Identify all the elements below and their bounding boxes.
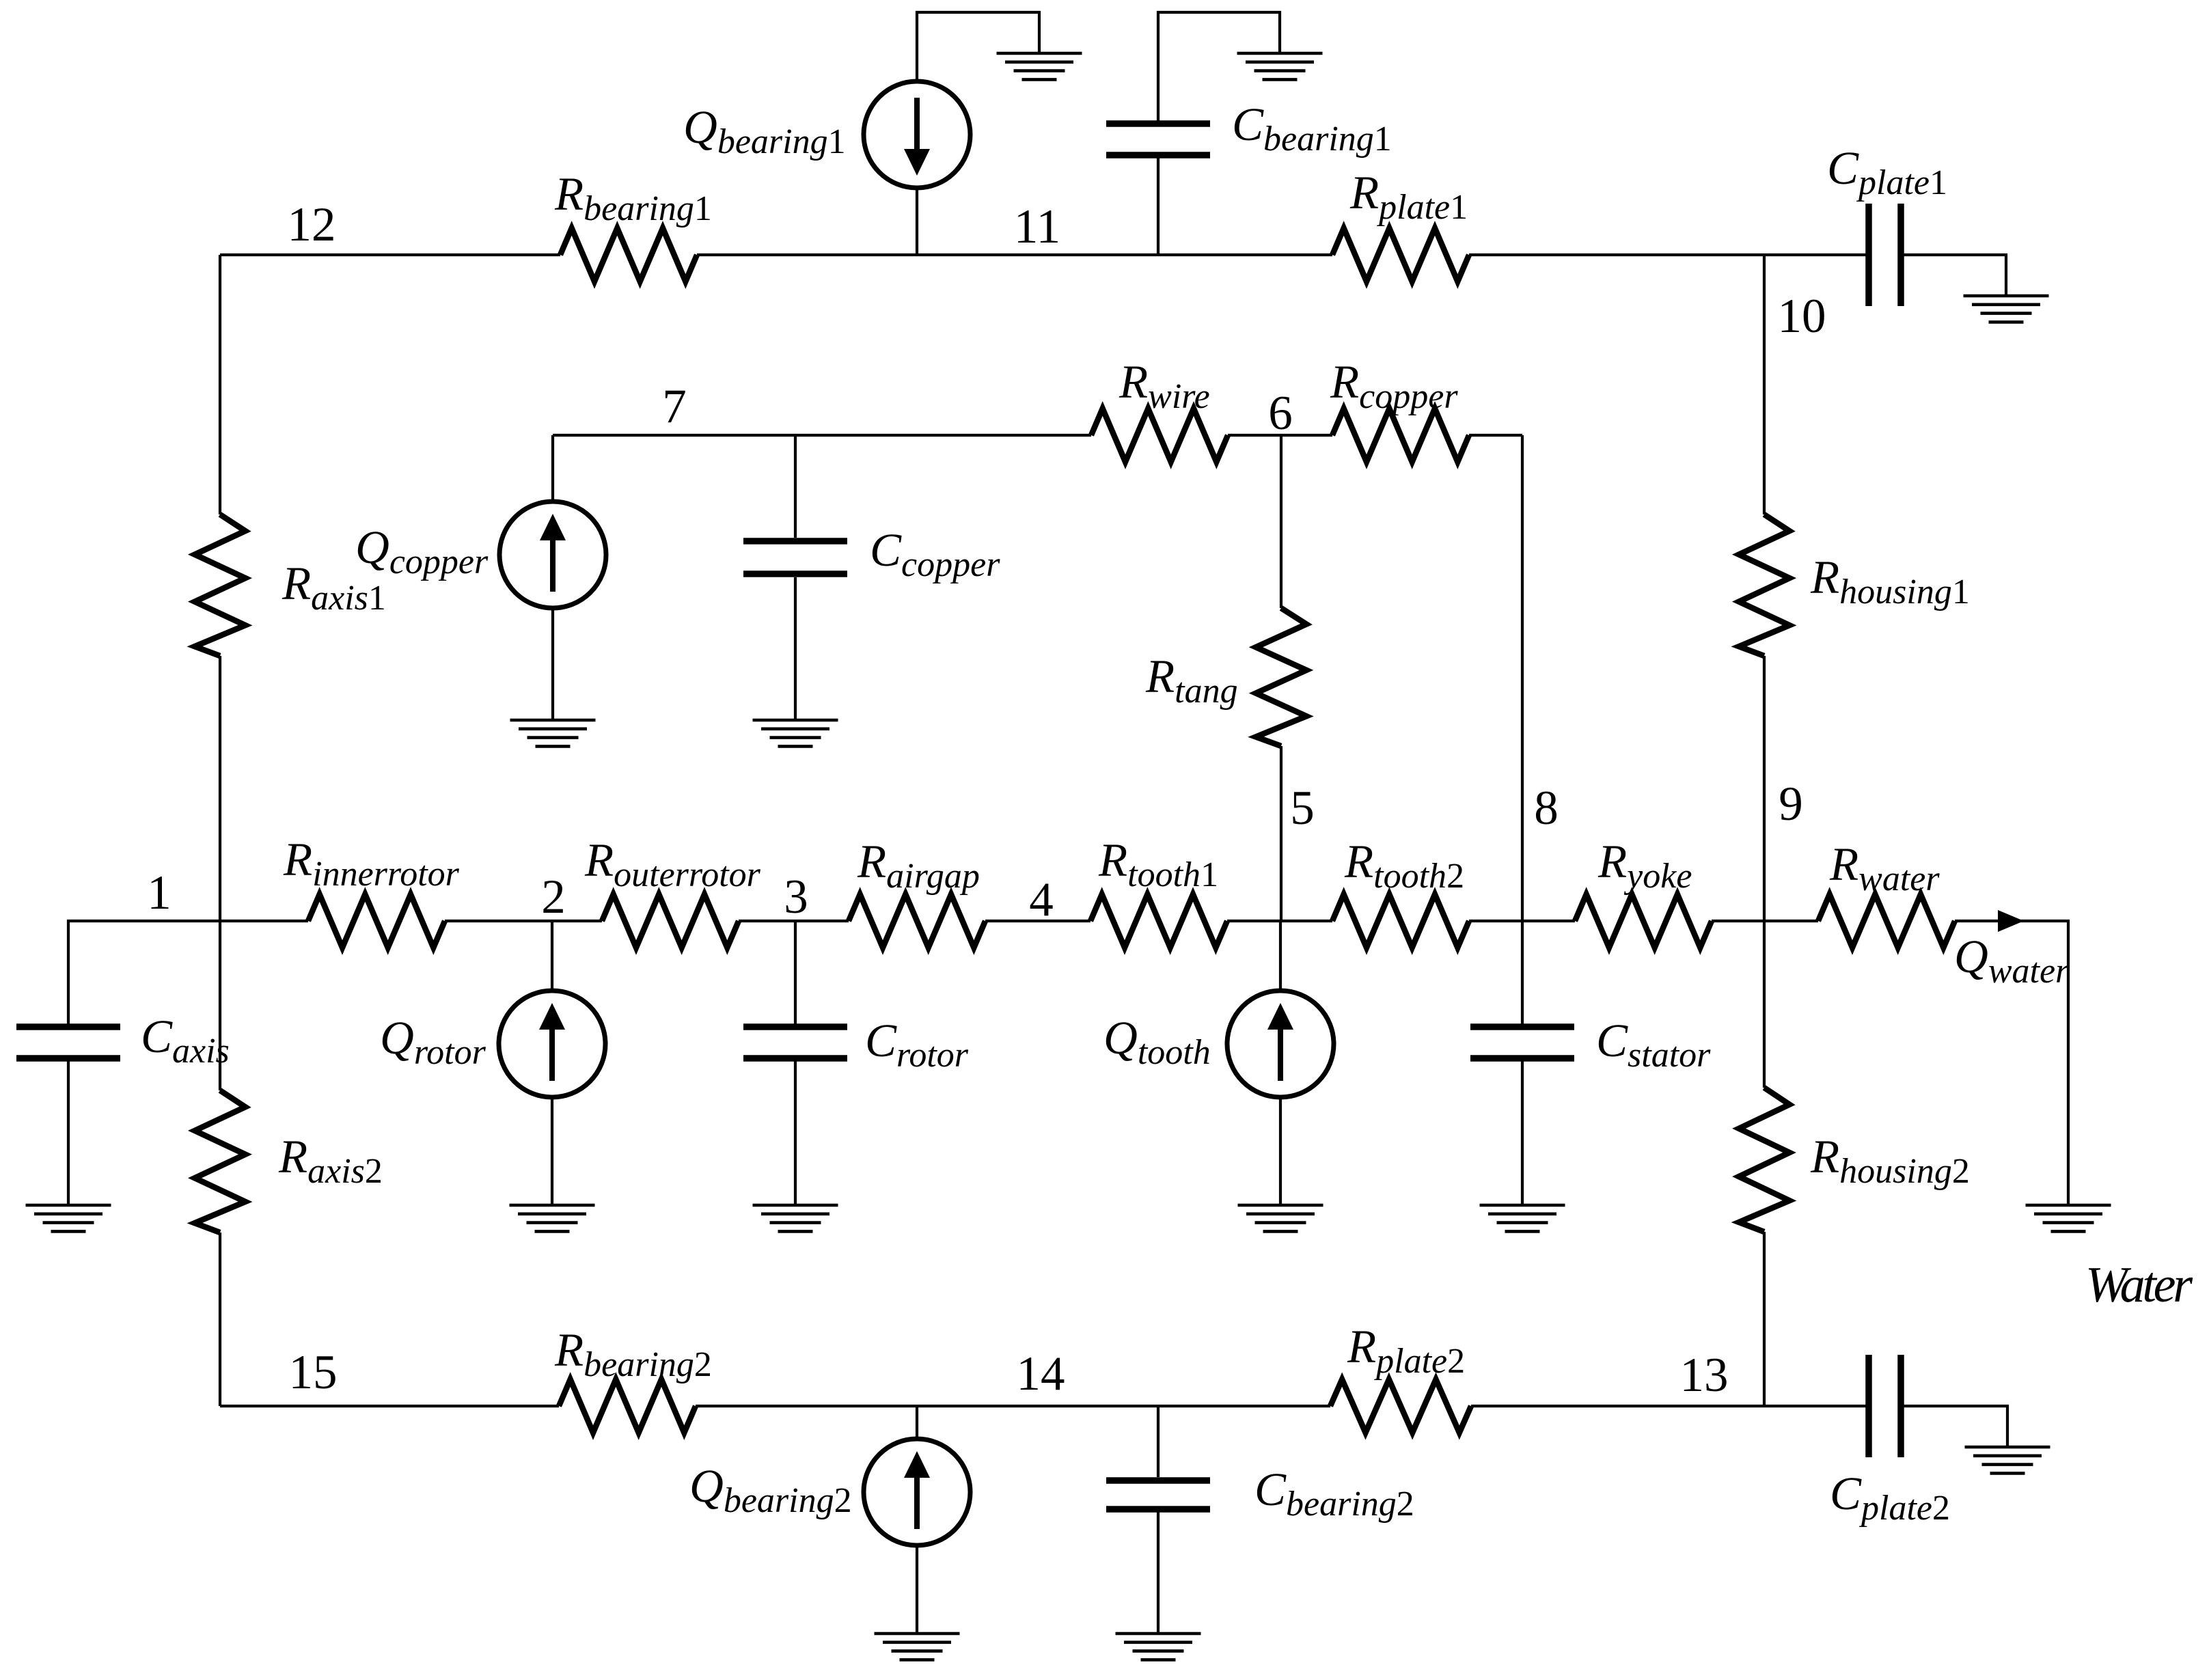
ground (under Ccopper) bbox=[753, 720, 838, 746]
wire Cbearing2 top from bottom bus bbox=[1157, 1406, 1160, 1477]
wire Qrotor bottom to ground bbox=[551, 1097, 553, 1205]
label Cbearing1 bbox=[1232, 98, 1392, 159]
label Qbearing1 bbox=[683, 101, 846, 161]
wire main bus node 3 segment bbox=[739, 920, 849, 922]
node 8 bbox=[1534, 782, 1559, 835]
label Caxis bbox=[141, 1010, 230, 1071]
resistor Raxis1 bbox=[195, 514, 245, 656]
svg-text:14: 14 bbox=[1017, 1347, 1065, 1401]
capacitor Cstator bbox=[1470, 1027, 1574, 1058]
wire Cplate2 right lead down to ground bbox=[1901, 1406, 2007, 1447]
wire main bus node 4 segment bbox=[985, 920, 1090, 922]
wire Qtooth top from main bus bbox=[1279, 921, 1282, 991]
wire node 7 drop to Qcopper bbox=[551, 435, 554, 501]
svg-text:9: 9 bbox=[1779, 777, 1803, 831]
label Ccopper bbox=[870, 524, 1000, 584]
node 2 bbox=[541, 870, 566, 924]
node 6 bbox=[1268, 387, 1293, 440]
wire bottom bus left segment (node 15 to Rbearing2) bbox=[220, 1405, 559, 1407]
node 5 bbox=[1290, 782, 1315, 835]
wire right column main bus to Rhousing2 bbox=[1763, 921, 1766, 1088]
label Routerrotor bbox=[584, 834, 761, 894]
label Crotor bbox=[865, 1015, 969, 1075]
svg-text:1: 1 bbox=[147, 866, 171, 920]
resistor Raxis2 bbox=[195, 1090, 245, 1233]
resistor Rtooth2 bbox=[1332, 894, 1469, 948]
ground (under Crotor) bbox=[753, 1205, 838, 1231]
wire Qbearing2 top from bottom bus bbox=[916, 1406, 918, 1438]
ground (under Qtooth) bbox=[1238, 1205, 1323, 1231]
label Ryoke bbox=[1597, 836, 1692, 896]
label Rtooth2 bbox=[1344, 836, 1464, 896]
ground (under Cbearing2) bbox=[1116, 1634, 1201, 1660]
label Water bbox=[2085, 1257, 2193, 1313]
wire main bus node 2 segment bbox=[445, 920, 602, 922]
svg-text:10: 10 bbox=[1778, 290, 1826, 343]
ground (under Caxis) bbox=[26, 1205, 111, 1231]
label Qcopper bbox=[355, 521, 489, 581]
svg-text:6: 6 bbox=[1268, 387, 1293, 440]
wire Cbearing1 column below capacitor to top bus bbox=[1157, 158, 1160, 255]
wire main bus node 5 segment bbox=[1227, 920, 1332, 922]
resistor Ryoke bbox=[1575, 894, 1712, 948]
wire top bus middle segment (Rbearing1 to Rplate1, through nodes 11) bbox=[697, 253, 1332, 256]
wire second row Rcopper to corner bbox=[1469, 434, 1522, 437]
resistor Rplate1 bbox=[1332, 228, 1469, 281]
node 1 bbox=[147, 866, 171, 920]
capacitor Crotor bbox=[743, 1027, 847, 1058]
wire Qrotor top from main bus bbox=[551, 921, 553, 991]
node 13 bbox=[1680, 1349, 1729, 1402]
label Rtang bbox=[1145, 650, 1238, 711]
label Rwire bbox=[1119, 356, 1210, 416]
ground (under Qcopper) bbox=[510, 720, 596, 746]
label Rbearing2 bbox=[554, 1324, 712, 1384]
wire Qtooth bottom to ground bbox=[1279, 1097, 1282, 1205]
node 9 bbox=[1779, 777, 1803, 831]
wire node 6 down to Rtang bbox=[1280, 435, 1282, 608]
node 7 bbox=[662, 380, 687, 433]
ground (under Qbearing2) bbox=[875, 1634, 960, 1660]
svg-text:15: 15 bbox=[289, 1346, 338, 1399]
label Rcopper bbox=[1330, 356, 1458, 416]
resistor Rtooth1 bbox=[1090, 894, 1227, 948]
svg-text:4: 4 bbox=[1029, 873, 1054, 926]
wire right column node10 to Rhousing1 bbox=[1763, 255, 1766, 514]
label Rtooth1 bbox=[1098, 834, 1218, 894]
wire main bus node1 segment with left corner down to Caxis bbox=[68, 921, 308, 1024]
label Rwater bbox=[1829, 838, 1940, 898]
label Cplate1 bbox=[1827, 142, 1947, 202]
capacitor Cplate2 bbox=[1869, 1355, 1901, 1457]
svg-text:13: 13 bbox=[1680, 1349, 1729, 1402]
wire Caxis bottom to ground bbox=[67, 1061, 70, 1205]
wire node 8 column corner down to main bus bbox=[1521, 435, 1524, 921]
wire left column Raxis1 to main bus node 1 bbox=[219, 656, 221, 921]
wire Crotor top from main bus bbox=[794, 921, 797, 1024]
label Cstator bbox=[1596, 1015, 1711, 1075]
ground (top, for Qbearing1) bbox=[997, 53, 1082, 79]
wire left column main bus to Raxis2 bbox=[219, 921, 221, 1090]
wire bottom bus right segment (node 13 to Cplate2) bbox=[1471, 1405, 1869, 1407]
svg-text:8: 8 bbox=[1534, 782, 1559, 835]
current source Qcopper bbox=[499, 501, 606, 608]
resistor Rhousing1 bbox=[1739, 514, 1789, 656]
label Rhousing1 bbox=[1810, 551, 1970, 611]
resistor Routerrotor bbox=[602, 894, 739, 948]
label Rplate2 bbox=[1347, 1321, 1465, 1381]
wire Qbearing1 column below circle to top bus bbox=[916, 189, 918, 255]
node 14 bbox=[1017, 1347, 1065, 1401]
resistor Rtang bbox=[1256, 608, 1306, 746]
wire left column Raxis2 to bottom bus node 15 bbox=[219, 1233, 221, 1406]
current source Qbearing1 bbox=[864, 81, 970, 188]
label Raxis1 bbox=[282, 557, 386, 618]
capacitor Cplate1 bbox=[1869, 204, 1901, 306]
svg-text:11: 11 bbox=[1014, 200, 1060, 253]
svg-text:5: 5 bbox=[1290, 782, 1315, 835]
node 3 bbox=[784, 870, 808, 924]
wire left column node12 to Raxis1 bbox=[219, 255, 221, 514]
wire second row node 7 to Rwire bbox=[553, 434, 1091, 437]
wire Ccopper bottom to ground bbox=[794, 577, 797, 720]
ground (right of Cplate2) bbox=[1965, 1447, 2050, 1473]
resistor Rinnerrotor bbox=[308, 894, 445, 948]
wire Qbearing1 column above circle with jog to ground bbox=[917, 12, 1039, 81]
wire Crotor bottom to ground bbox=[794, 1061, 797, 1205]
label Qbearing2 bbox=[689, 1460, 852, 1520]
current source Qrotor bbox=[499, 991, 605, 1097]
resistor Rbearing2 bbox=[559, 1379, 696, 1433]
ground (under Qrotor) bbox=[510, 1205, 595, 1231]
capacitor Cbearing1 bbox=[1106, 124, 1210, 155]
capacitor Caxis bbox=[16, 1027, 120, 1058]
label Cbearing2 bbox=[1254, 1463, 1414, 1524]
wire second row Rwire to Rcopper (node 6) bbox=[1228, 434, 1332, 437]
ground (right of Cplate1) bbox=[1964, 296, 2049, 322]
svg-text:7: 7 bbox=[662, 380, 687, 433]
label Rinnerrotor bbox=[283, 834, 460, 894]
wire top bus left segment (node 12 to Rbearing1) bbox=[220, 253, 560, 256]
resistor Rcopper bbox=[1332, 409, 1469, 462]
resistor Rwire bbox=[1091, 409, 1228, 462]
label Raxis2 bbox=[278, 1131, 383, 1191]
ground (right end of main bus, Water) bbox=[2026, 1205, 2111, 1231]
node 10 bbox=[1778, 290, 1826, 343]
wire main bus right segment after Rwater with corner down to ground bbox=[1955, 921, 2068, 1205]
wire Cstator bottom to ground bbox=[1521, 1061, 1524, 1205]
wire Qbearing2 bottom to ground bbox=[916, 1546, 918, 1634]
svg-text:Water: Water bbox=[2085, 1257, 2193, 1313]
wire main bus node 9 segment bbox=[1712, 920, 1818, 922]
wire bottom bus middle segment (node 14) bbox=[696, 1405, 1330, 1407]
wire Cbearing1 column above capacitor with jog to ground bbox=[1158, 12, 1280, 121]
label Rairgap bbox=[857, 836, 980, 896]
label Qwater bbox=[1954, 931, 2070, 991]
node 11 bbox=[1014, 200, 1060, 253]
resistor Rairgap bbox=[849, 894, 985, 948]
ground (under Cstator) bbox=[1480, 1205, 1565, 1231]
wire Qcopper bottom to ground bbox=[551, 608, 554, 720]
wire Rtang to main bus node 5 bbox=[1280, 746, 1282, 921]
resistor Rplate2 bbox=[1330, 1379, 1471, 1433]
svg-text:3: 3 bbox=[784, 870, 808, 924]
resistor Rwater bbox=[1818, 894, 1955, 948]
resistor Rhousing2 bbox=[1739, 1088, 1789, 1232]
wire Cplate1 right lead down to ground bbox=[1901, 255, 2006, 296]
label Rhousing2 bbox=[1810, 1131, 1970, 1191]
wire right column Rhousing1 to main bus node 9 bbox=[1763, 656, 1766, 921]
svg-text:2: 2 bbox=[541, 870, 566, 924]
label Rbearing1 bbox=[554, 168, 712, 228]
capacitor Cbearing2 bbox=[1106, 1481, 1210, 1509]
arrowhead Qwater heat flow arrow bbox=[1998, 910, 2024, 932]
wire node 8 column below main bus to Cstator bbox=[1521, 921, 1524, 1024]
node 15 bbox=[289, 1346, 338, 1399]
capacitor Ccopper bbox=[743, 541, 847, 574]
node 12 bbox=[288, 198, 336, 251]
current source Qbearing2 bbox=[864, 1439, 970, 1545]
wire top bus right segment (Rplate1 to Cplate1) bbox=[1469, 253, 1869, 256]
current source Qtooth bbox=[1227, 991, 1334, 1097]
label Rplate1 bbox=[1349, 167, 1468, 227]
label Qrotor bbox=[380, 1012, 486, 1072]
label Cplate2 bbox=[1830, 1468, 1950, 1528]
svg-text:12: 12 bbox=[288, 198, 336, 251]
wire right column Rhousing2 to bottom bus node 13 bbox=[1763, 1232, 1766, 1406]
label Qtooth bbox=[1103, 1012, 1211, 1072]
node 4 bbox=[1029, 873, 1054, 926]
resistor Rbearing1 bbox=[560, 228, 697, 281]
wire Ccopper column from second row to capacitor bbox=[794, 435, 797, 538]
wire main bus node 8 segment bbox=[1469, 920, 1575, 922]
wire Cbearing2 bottom to ground bbox=[1157, 1512, 1160, 1634]
ground (top, for Cbearing1) bbox=[1237, 53, 1323, 79]
